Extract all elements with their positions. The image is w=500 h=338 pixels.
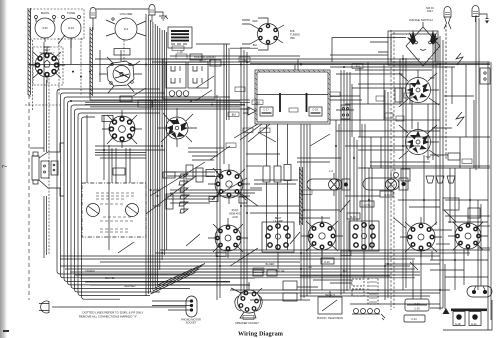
wire bottom right y290-300 xyxy=(230,290,450,300)
tube V7 xyxy=(399,122,439,159)
box right of pill B xyxy=(399,178,408,190)
capacitor can C-B xyxy=(149,5,155,23)
transformer L-10 xyxy=(168,27,192,48)
svg-text:RED: RED xyxy=(242,59,247,62)
svg-text:L-10: L-10 xyxy=(177,50,183,54)
tube VB on pill B xyxy=(386,172,397,196)
box C-25 xyxy=(163,172,175,178)
svg-text:TUNING: TUNING xyxy=(290,32,300,36)
shield hatched strip x90 xyxy=(90,27,93,96)
antenna zigzag xyxy=(456,53,463,65)
wire dashed box around pots xyxy=(30,9,84,39)
wire left stubs y146-158 xyxy=(30,146,165,158)
box right of pill A xyxy=(342,179,350,190)
svg-text:RANGE SWITCH: RANGE SWITCH xyxy=(409,18,432,22)
svg-text:L-5: L-5 xyxy=(392,168,396,172)
outlet pair xyxy=(430,300,492,330)
gang rotor right xyxy=(126,204,139,217)
wire right-center horizontals xyxy=(300,128,488,264)
wire bottom bus y266-285 xyxy=(60,266,420,285)
AC plug xyxy=(39,301,58,313)
svg-text:LW RED: LW RED xyxy=(85,270,94,273)
box R-26 xyxy=(321,258,334,264)
wire left vertical pair xyxy=(44,42,47,258)
potentiometer VOLUME xyxy=(106,18,146,40)
wire vertical x362-365 xyxy=(362,124,365,250)
tube socket V11 xyxy=(400,217,442,257)
svg-text:C-28: C-28 xyxy=(414,303,420,306)
svg-text:BLK: BLK xyxy=(253,44,258,47)
svg-text:R.B.: R.B. xyxy=(290,29,295,33)
svg-text:SOCKET: SOCKET xyxy=(186,321,197,325)
resistor box left of V6 xyxy=(395,88,402,102)
label flags xyxy=(172,46,472,273)
dashed outline around V1 xyxy=(33,47,63,85)
right chassis band verticals xyxy=(358,137,490,168)
wire right band y162-168 xyxy=(358,162,490,168)
resistor box R-24 above V3 xyxy=(114,49,130,56)
ground near C-B xyxy=(155,12,168,20)
svg-text:BLK: BLK xyxy=(256,102,261,105)
socket module square A xyxy=(262,222,294,252)
trimmer C-18 xyxy=(309,107,322,116)
svg-text:C-77A: C-77A xyxy=(364,204,371,207)
shield hatched strip left xyxy=(28,8,31,300)
wire lower bus y250-262 xyxy=(60,250,490,262)
trimmer C-17 xyxy=(260,107,273,116)
L-24 trap boxes xyxy=(283,281,297,301)
svg-text:BASS: BASS xyxy=(41,11,49,15)
tube socket V10 xyxy=(301,216,343,256)
wire stubs left of V5 xyxy=(242,20,250,48)
small box right x482 xyxy=(480,68,490,84)
wire vertical x385-388 xyxy=(385,90,388,300)
svg-text:SWITCH: SWITCH xyxy=(199,58,211,62)
wire top-right mesh xyxy=(330,59,474,160)
svg-text:R-26: R-26 xyxy=(324,261,330,264)
box R-30 xyxy=(347,213,360,219)
switch surround box xyxy=(163,59,215,99)
svg-text:E-1B: E-1B xyxy=(455,323,461,326)
phono-radio switch xyxy=(166,62,208,88)
box C-right mid xyxy=(448,153,460,160)
tube socket V1 speaker-rect xyxy=(29,47,65,83)
wire top link line xyxy=(96,8,149,10)
svg-text:ONLY: ONLY xyxy=(427,10,434,13)
misc diagonal hookups xyxy=(118,76,456,270)
tube V6 xyxy=(399,70,439,107)
label box above V2 xyxy=(102,116,113,122)
dashed ladder right xyxy=(368,278,378,304)
wire vertical x301-310 xyxy=(295,59,310,300)
svg-text:BLK YEL: BLK YEL xyxy=(105,277,115,280)
svg-text:BLK: BLK xyxy=(232,114,237,117)
wire top bus y56-71 xyxy=(28,44,490,70)
svg-text:6SQ7: 6SQ7 xyxy=(232,208,239,212)
wire right lower mesh xyxy=(300,226,490,280)
wire vertical x440-443 xyxy=(440,36,443,310)
component ladder center xyxy=(179,174,189,213)
capacitor can C-A xyxy=(90,8,96,31)
svg-text:TONE: TONE xyxy=(67,11,75,15)
svg-text:C-18: C-18 xyxy=(312,108,318,112)
box C-30 below V2 xyxy=(113,168,125,175)
potentiometer TONE xyxy=(58,16,81,49)
wire right-center verticals xyxy=(336,100,474,290)
tube socket V9 xyxy=(208,218,248,258)
tube V3 xyxy=(99,50,142,93)
wire vertical x433-436 xyxy=(433,33,436,160)
trapezoid trio xyxy=(426,176,455,183)
IF can chassis box xyxy=(255,70,330,124)
box C-77 xyxy=(360,201,374,207)
svg-text:TOP: TOP xyxy=(429,76,435,80)
svg-text:VOLUME: VOLUME xyxy=(120,12,133,16)
connector right of chassis xyxy=(341,105,350,119)
wire vertical x476-479 xyxy=(476,15,479,170)
svg-text:GR: GR xyxy=(308,266,312,269)
svg-text:DEM AVC: DEM AVC xyxy=(229,211,241,215)
C-28 C-29 box xyxy=(405,299,429,311)
svg-text:Wiring Diagram: Wiring Diagram xyxy=(238,331,284,338)
svg-text:L-4: L-4 xyxy=(329,169,333,173)
svg-text:I.F AMP: I.F AMP xyxy=(273,219,282,223)
svg-text:C-34: C-34 xyxy=(411,318,417,321)
socket module square B xyxy=(349,221,379,251)
tube socket V2 xyxy=(102,110,142,148)
gang capacitor dashed box xyxy=(82,183,146,237)
svg-text:RED: RED xyxy=(252,20,257,23)
wire diagonals below IF box xyxy=(234,124,270,142)
small box pair near V9 xyxy=(253,270,277,276)
speaker output transformer xyxy=(32,143,64,196)
tube socket V8 xyxy=(208,164,250,204)
wire mid-left verticals x88-104 xyxy=(87,38,109,250)
svg-text:BLK GR: BLK GR xyxy=(276,270,285,273)
wire vertical x217-222 xyxy=(217,95,220,300)
label box 6SQ7 OUTPUT xyxy=(206,170,221,177)
scanned page left edge shade xyxy=(0,0,7,338)
tube VA on pill A xyxy=(329,173,340,196)
svg-text:SPEAKER SOCKET: SPEAKER SOCKET xyxy=(235,321,259,325)
svg-text:R-33: R-33 xyxy=(68,26,74,30)
wire dashed vertical x446 xyxy=(445,25,447,160)
C-34 box xyxy=(404,315,425,322)
small comp cluster x403 y171 xyxy=(394,169,411,181)
box C-24 xyxy=(209,197,218,202)
svg-text:R-2: R-2 xyxy=(124,27,129,31)
gang comb rows xyxy=(96,193,134,232)
svg-text:R-33: R-33 xyxy=(384,194,390,197)
phono-television box xyxy=(318,291,342,314)
wire verticals V2 to gang xyxy=(112,148,130,183)
wire bottom-right mesh xyxy=(250,180,464,309)
shield hatched strip x300 xyxy=(300,167,303,225)
wire diagonal jogs bottom center xyxy=(151,264,420,295)
svg-text:BL-RED: BL-RED xyxy=(266,263,275,266)
dashed comp pair C-30 C-31 xyxy=(352,279,364,296)
tube V4 xyxy=(158,108,197,147)
box R-13 xyxy=(239,197,247,203)
pilot oval xyxy=(467,286,492,297)
antenna zigzag lower xyxy=(456,112,464,126)
oscillator coil pill B xyxy=(363,178,399,190)
svg-text:AUD: AUD xyxy=(232,215,238,219)
wire vertical x341-350 xyxy=(341,70,350,295)
wire vertical right edge x488-491 xyxy=(488,62,491,330)
oscillator coil pill A xyxy=(307,179,342,190)
misc small boxes top-left xyxy=(120,54,221,107)
svg-text:TOP: TOP xyxy=(425,155,431,159)
svg-text:C-29: C-29 xyxy=(414,308,420,311)
dial lamp B xyxy=(472,6,490,24)
corner mark xyxy=(3,330,9,332)
svg-text:R-30: R-30 xyxy=(350,216,356,219)
resistor box R-33 xyxy=(380,191,393,197)
svg-text:SELECT: SELECT xyxy=(325,293,336,297)
tube socket V5 tuning indicator xyxy=(250,18,284,50)
svg-text:TOP: TOP xyxy=(427,57,433,61)
wire left corner bundle xyxy=(57,89,415,299)
wire mid y172-213 xyxy=(167,148,341,213)
gang rotor left xyxy=(87,204,100,217)
dial lamp A xyxy=(444,7,451,30)
bell row bottom mid-right xyxy=(352,309,385,321)
potentiometer BASS xyxy=(35,16,56,39)
phono motor socket xyxy=(152,296,197,317)
svg-text:RED RED: RED RED xyxy=(125,285,136,288)
resistor boxes column mid-right xyxy=(263,124,291,250)
wire dashed horizontal left xyxy=(25,104,60,106)
wire mid-left bus y100-109 xyxy=(85,100,250,107)
speaker socket xyxy=(231,282,262,320)
misc resistor verticals left-center xyxy=(153,165,203,206)
svg-text:520-PF ONLY: 520-PF ONLY xyxy=(40,52,55,55)
svg-text:BLK: BLK xyxy=(356,66,361,69)
svg-text:BLK: BLK xyxy=(343,270,348,273)
svg-text:IND.: IND. xyxy=(290,36,295,40)
wire plug cord xyxy=(58,306,186,308)
wire dashed vertical x391-394 xyxy=(391,30,394,310)
right column components cluster xyxy=(330,38,490,291)
svg-text:PHONO- TELEVISION: PHONO- TELEVISION xyxy=(317,316,343,320)
wire verticals x224-230 xyxy=(224,44,229,164)
connector arrow left of chassis xyxy=(243,107,256,115)
svg-text:E-1A: E-1A xyxy=(471,323,477,326)
resistor box R-9 xyxy=(166,194,173,209)
coil trio under switch xyxy=(169,91,189,97)
wire central vertical bundle x146-167 xyxy=(146,14,167,296)
wire vertical x241-247 xyxy=(241,47,247,300)
svg-text:C-17: C-17 xyxy=(263,108,269,112)
svg-text:REMOVE ALL CONNECTIONS MARKED: REMOVE ALL CONNECTIONS MARKED “X” xyxy=(79,315,137,319)
wire vertical x403-406 xyxy=(403,55,406,290)
tube socket V12 xyxy=(448,216,488,256)
svg-text:# 50: # 50 xyxy=(42,26,48,30)
wire dashed verticals left xyxy=(33,38,125,255)
range switch xyxy=(370,22,440,66)
pot drop wires xyxy=(45,38,71,65)
